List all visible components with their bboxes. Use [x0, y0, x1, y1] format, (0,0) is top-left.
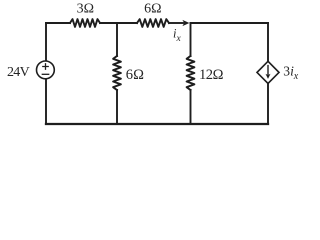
svg-text:x: x — [176, 34, 182, 44]
svg-text:3Ω: 3Ω — [77, 2, 94, 17]
wire right branch lower — [267, 84, 269, 125]
wire node B to top-right corner — [191, 22, 269, 24]
dependent source arrow head — [266, 74, 271, 79]
resistor R3 6ohm vertical — [113, 56, 121, 90]
dependent source arrow shaft — [267, 66, 269, 75]
resistor R1 3ohm — [70, 19, 100, 27]
wire top-left segment — [46, 22, 70, 24]
voltage source V1 circle — [37, 61, 55, 79]
svg-text:3i: 3i — [283, 64, 294, 79]
wire middle branch lower — [116, 90, 118, 124]
voltage source minus sign — [42, 73, 48, 75]
svg-text:x: x — [293, 71, 299, 82]
voltage source plus sign — [43, 64, 48, 69]
resistor R2 6ohm horizontal — [137, 19, 169, 27]
wire left branch lower — [45, 80, 47, 124]
wire 12ohm branch upper — [190, 23, 192, 56]
wire middle branch upper — [116, 23, 118, 56]
wire 12ohm branch lower — [190, 90, 192, 124]
dependent current source I1 diamond — [257, 61, 279, 83]
wire bottom — [46, 123, 268, 125]
wire left branch upper — [45, 23, 47, 61]
svg-text:6Ω: 6Ω — [126, 67, 144, 83]
wire right branch upper — [267, 23, 269, 61]
svg-text:12Ω: 12Ω — [199, 67, 224, 83]
svg-text:6Ω: 6Ω — [144, 2, 161, 17]
svg-text:24V: 24V — [7, 65, 30, 80]
resistor R4 12ohm vertical — [187, 56, 195, 90]
current arrow head ix — [182, 20, 189, 26]
wire between R1 and R2 — [100, 22, 137, 24]
wire R2 to node B with current arrow ix — [169, 22, 183, 24]
